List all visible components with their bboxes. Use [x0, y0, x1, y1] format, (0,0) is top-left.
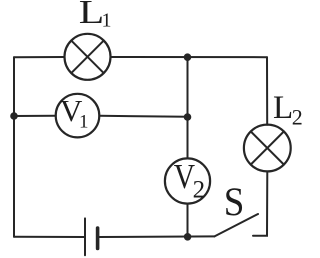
svg-text:2: 2: [193, 177, 206, 204]
node junction of middle rail with V1 branch: [184, 113, 192, 121]
node junction of middle rail with bottom wire: [184, 233, 192, 241]
wire bottom-left segment from corner to battery: [14, 236, 85, 238]
lamp L1: [65, 34, 111, 80]
lamp L2: [244, 125, 291, 172]
wire left rail: [13, 57, 15, 237]
wire from lamp L1 to top-right corner: [111, 56, 268, 58]
wire from lamp L2 down to switch fixed contact with hook: [253, 172, 267, 236]
svg-text:1: 1: [102, 10, 112, 32]
node junction of middle rail with top wire: [184, 53, 192, 61]
svg-text:S: S: [224, 179, 245, 224]
label L1: [79, 0, 112, 32]
wire top-left segment from corner to lamp L1: [14, 56, 65, 58]
wire right rail down to lamp L2: [266, 57, 268, 125]
label L2: [273, 90, 303, 129]
voltmeter V2: [165, 157, 210, 204]
wire from voltmeter V1 to middle rail: [99, 116, 187, 117]
switch S blade (open): [215, 214, 259, 236]
wire middle rail upper (top junction down to V2): [187, 57, 189, 158]
wire from battery to switch pivot: [99, 235, 215, 238]
voltmeter V1: [56, 93, 100, 137]
svg-text:2: 2: [292, 104, 303, 129]
wire from left junction to voltmeter V1: [14, 115, 56, 117]
svg-text:1: 1: [79, 112, 89, 133]
svg-text:L: L: [79, 0, 105, 31]
svg-text:L: L: [273, 90, 293, 126]
wire middle rail lower (V2 down to bottom wire): [187, 204, 189, 237]
node junction of left rail with V1 branch: [10, 112, 18, 120]
battery: [85, 218, 98, 255]
